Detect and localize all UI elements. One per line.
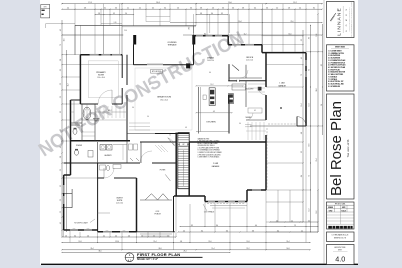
svg-text:8-2: 8-2	[149, 84, 151, 86]
door arc guest suite entry	[104, 168, 114, 178]
svg-text:12-0: 12-0	[316, 33, 318, 36]
svg-text:6.0 BUILDING SECTION: 6.0 BUILDING SECTION	[328, 72, 345, 74]
upper roof dimension row	[170, 22, 322, 24]
svg-text:4-0: 4-0	[115, 235, 117, 237]
hall door swing 1	[168, 138, 175, 146]
rear garage south wall with windows	[205, 201, 247, 203]
svg-text:4-8: 4-8	[185, 127, 187, 129]
svg-text:33-6: 33-6	[98, 251, 101, 253]
svg-text:KITCHEN: KITCHEN	[206, 122, 216, 124]
right col ticks	[302, 34, 305, 37]
1-car garage door dashed	[268, 123, 296, 125]
left wing extra partition lines	[82, 119, 95, 121]
svg-text:5-6: 5-6	[87, 235, 89, 237]
svg-text:4-2: 4-2	[60, 29, 62, 31]
svg-text:4-6: 4-6	[60, 222, 62, 224]
primary suite ceiling tray	[88, 61, 118, 98]
1-car garage south edge line	[250, 125, 297, 127]
svg-text:11-8: 11-8	[79, 241, 82, 243]
corridor north wall left	[71, 140, 131, 142]
2-car garage west wall	[188, 142, 190, 196]
left wing west wall upper	[70, 100, 72, 175]
svg-text:KEY: KEY	[44, 6, 47, 8]
roof extension verticals	[193, 14, 195, 33]
appliance tower island	[209, 88, 215, 106]
primary suite left wall	[79, 55, 81, 104]
2-car garage north wall	[189, 141, 266, 143]
office south wall	[229, 77, 262, 79]
top-left porch edge top	[75, 24, 122, 26]
foyer opening jambs	[236, 80, 238, 82]
svg-text:3-8: 3-8	[200, 8, 202, 10]
top row3 tick marks	[94, 13, 97, 16]
svg-text:3-6: 3-6	[266, 8, 268, 10]
svg-text:5-4: 5-4	[299, 8, 301, 10]
svg-text:4-4: 4-4	[67, 8, 69, 10]
svg-text:6-2: 6-2	[301, 151, 303, 153]
svg-text:SUITE: SUITE	[117, 200, 123, 202]
svg-text:CHKD: CHKD	[329, 210, 333, 212]
svg-text:GREAT ROOM: GREAT ROOM	[157, 96, 171, 99]
porch double door swing triangles	[145, 194, 157, 200]
svg-text:LINNANE: LINNANE	[337, 7, 343, 36]
door arc mud to garage	[258, 87, 266, 95]
mud hall bench rects	[129, 144, 133, 150]
svg-text:6-2: 6-2	[254, 110, 256, 112]
sheet bottom border	[41, 263, 358, 265]
svg-text:12-0 x 11-6: 12-0 x 11-6	[246, 60, 253, 62]
svg-text:12-6 x 13-0: 12-6 x 13-0	[116, 203, 123, 205]
guest suite north wall	[98, 177, 104, 179]
house east long wall	[265, 53, 267, 87]
title block left edge line	[323, 0, 325, 264]
svg-text:3-2: 3-2	[221, 13, 223, 15]
door arc corridor	[140, 151, 152, 163]
svg-text:3-2: 3-2	[301, 39, 303, 41]
garage north wall	[262, 52, 306, 54]
svg-text:13-2: 13-2	[293, 2, 296, 4]
svg-text:16-2: 16-2	[68, 83, 70, 86]
right dimension line col 3	[317, 14, 319, 232]
svg-text:4-0: 4-0	[183, 230, 185, 232]
wall step between dining and office	[227, 36, 229, 45]
top extension lines	[74, 4, 76, 26]
scullery north wall	[228, 80, 237, 82]
svg-text:5-0: 5-0	[147, 116, 149, 118]
svg-text:W.I.C.: W.I.C.	[108, 110, 113, 112]
svg-text:7-2: 7-2	[294, 225, 296, 227]
garage man door swing	[297, 117, 306, 127]
svg-text:7-2: 7-2	[309, 175, 311, 177]
primary suite top wall with windows	[80, 54, 122, 56]
terrace roof overhang outline	[146, 17, 170, 22]
svg-text:3-4: 3-4	[164, 8, 166, 10]
svg-text:1 CAR: 1 CAR	[279, 82, 285, 85]
toilet wc	[73, 129, 77, 135]
svg-text:3-8: 3-8	[242, 8, 244, 10]
svg-text:3-4: 3-4	[74, 235, 76, 237]
svg-text:6-0: 6-0	[308, 220, 310, 222]
scullery sink dark fixture	[258, 87, 262, 91]
svg-text:9-4: 9-4	[209, 72, 211, 74]
svg-text:11-2: 11-2	[244, 33, 247, 35]
top dimension line row 3 partial	[95, 14, 134, 16]
svg-text:12-10: 12-10	[115, 241, 119, 243]
bath east wall	[81, 104, 83, 141]
svg-text:13-6 x 12-0: 13-6 x 12-0	[207, 60, 214, 62]
svg-text:8-2: 8-2	[321, 64, 323, 66]
terrace left edge line	[121, 25, 123, 54]
mud hall step lines	[245, 124, 252, 126]
scullery shelf lines	[248, 83, 265, 85]
svg-text:FIRST FLOOR PLAN: FIRST FLOOR PLAN	[137, 252, 180, 257]
svg-text:5-6: 5-6	[177, 8, 179, 10]
left dimension line col 2	[66, 50, 68, 232]
kitchen south wall	[127, 133, 155, 135]
front porch step lines	[140, 233, 172, 235]
svg-text:12-2: 12-2	[309, 208, 311, 211]
svg-text:3-4: 3-4	[211, 13, 213, 15]
svg-text:4-6: 4-6	[301, 57, 303, 59]
dining west wall / terrace column line	[193, 36, 195, 65]
svg-text:UP: UP	[182, 144, 184, 146]
scullery counter	[232, 84, 246, 90]
rear terrace step lines	[210, 205, 247, 207]
kitchen west partition	[198, 87, 200, 134]
guest bath fixtures	[100, 165, 106, 170]
drawing title underline	[137, 256, 203, 258]
door arc primary suite entry	[98, 90, 112, 104]
bath vanity counter	[73, 101, 75, 123]
svg-text:6-8: 6-8	[84, 8, 86, 10]
svg-text:GARAGE: GARAGE	[212, 165, 220, 168]
svg-text:3-6: 3-6	[132, 107, 134, 109]
wic walls	[94, 104, 96, 141]
svg-text:9.0 SCHEDULES: 9.0 SCHEDULES	[328, 86, 340, 88]
svg-text:19-6 x 20-0: 19-6 x 20-0	[160, 99, 168, 101]
svg-text:8-2: 8-2	[313, 8, 315, 10]
svg-text:PORCH: PORCH	[154, 214, 161, 216]
kitchen dim line	[196, 85, 243, 87]
svg-text:3. VERIFY DOOR SIZES W/ OWNER: 3. VERIFY DOOR SIZES W/ OWNER	[198, 152, 222, 154]
svg-text:12-4: 12-4	[309, 103, 311, 106]
svg-text:4-2: 4-2	[153, 235, 155, 237]
bottom dimension rows	[270, 221, 318, 223]
svg-text:2-10: 2-10	[124, 30, 127, 32]
svg-text:5-2: 5-2	[60, 83, 62, 85]
svg-text:24-8: 24-8	[316, 88, 318, 91]
svg-text:12-6: 12-6	[208, 241, 211, 243]
mudroom lockers	[247, 122, 249, 140]
stair west wall	[175, 133, 177, 196]
svg-text:8-4: 8-4	[301, 175, 303, 177]
terrace column right	[192, 35, 195, 45]
svg-text:12-4: 12-4	[153, 241, 156, 243]
garage east wall with windows	[305, 53, 307, 126]
left dimension line col 1	[61, 20, 63, 237]
powder room walls top right	[245, 65, 247, 78]
title block plan name box	[327, 94, 355, 199]
svg-text:4-2: 4-2	[213, 111, 215, 113]
svg-text:2 CAR: 2 CAR	[213, 162, 219, 165]
svg-text:POWDER: POWDER	[76, 145, 82, 147]
wic hatch closet shelving	[95, 106, 97, 118]
mudroom partition	[246, 119, 266, 121]
drawing title circle	[125, 253, 134, 262]
revision table cells	[327, 208, 355, 210]
svg-text:21-6: 21-6	[290, 21, 293, 23]
terrace column left	[133, 35, 136, 45]
stair label box	[180, 143, 188, 146]
svg-text:13-4: 13-4	[286, 241, 289, 243]
right dimension line col 1	[302, 30, 304, 222]
guest closet wall	[98, 212, 110, 214]
svg-text:2-4: 2-4	[125, 13, 127, 15]
dining north wall with windows	[194, 35, 229, 37]
svg-text:4-2: 4-2	[139, 8, 141, 10]
svg-text:8-6: 8-6	[226, 230, 228, 232]
office closet diagonal wall	[232, 65, 239, 71]
bottom row ticks	[269, 221, 272, 224]
logo divider lines	[342, 6, 344, 33]
svg-text:3-6: 3-6	[222, 8, 224, 10]
hall closet hatch	[155, 145, 162, 152]
svg-text:Two Lane Lot 56: Two Lane Lot 56	[347, 139, 350, 157]
porch inner edge line	[140, 199, 172, 201]
svg-text:17-8: 17-8	[88, 2, 91, 4]
left room inner partition	[71, 189, 73, 208]
svg-text:4-6: 4-6	[212, 8, 214, 10]
svg-text:GUEST: GUEST	[116, 198, 123, 200]
svg-text:8-8: 8-8	[252, 230, 254, 232]
kitchen sink detail	[203, 95, 206, 100]
svg-text:5-8: 5-8	[288, 8, 290, 10]
svg-text:5-2: 5-2	[60, 211, 62, 213]
revision table rule lines	[327, 214, 355, 216]
svg-text:4-6: 4-6	[128, 235, 130, 237]
title block revision table box	[327, 202, 355, 229]
left lower west wall	[63, 175, 65, 230]
covered terrace front edge double line	[122, 24, 196, 26]
svg-text:GARAGE: GARAGE	[278, 84, 286, 87]
primary bath north wall	[71, 99, 81, 101]
rear wall step up	[246, 190, 248, 202]
pantry shelves left of kitchen	[129, 122, 150, 124]
svg-text:BRENTWOOD, TN: BRENTWOOD, TN	[334, 238, 346, 240]
svg-text:9-2: 9-2	[309, 69, 311, 71]
svg-text:4-8: 4-8	[301, 132, 303, 134]
svg-text:3-6: 3-6	[60, 69, 62, 71]
left room closet wall	[64, 207, 72, 209]
kitchen counter line west	[200, 87, 202, 132]
kitchen lower dim line	[196, 112, 232, 114]
laundry counter	[113, 144, 127, 146]
stair treads	[178, 134, 189, 136]
corridor south wall	[64, 162, 140, 164]
top-left porch eave line	[62, 34, 123, 36]
copyright scribble row	[328, 226, 332, 229]
right extension stubs	[262, 35, 303, 37]
left extension stubs	[46, 23, 75, 25]
svg-text:2-10: 2-10	[114, 22, 117, 24]
svg-text:6-2: 6-2	[60, 185, 62, 187]
garage floor drain	[280, 107, 282, 109]
svg-text:8-4: 8-4	[201, 230, 203, 232]
rear garage door dashed	[207, 203, 245, 205]
svg-text:1.0 COVER SHEET: 1.0 COVER SHEET	[328, 51, 341, 53]
svg-text:OFFICE: OFFICE	[246, 57, 254, 59]
powder sink	[88, 151, 93, 158]
svg-text:3-6: 3-6	[115, 8, 117, 10]
svg-text:FOYER: FOYER	[160, 170, 166, 172]
svg-text:1. PROVIDE 5/8 TYPE X GYP BD: 1. PROVIDE 5/8 TYPE X GYP BD	[198, 141, 220, 143]
drawing sheet (white paper)	[40, 0, 358, 265]
svg-text:4.0: 4.0	[335, 254, 345, 263]
svg-text:3-0: 3-0	[239, 123, 241, 125]
svg-text:7-6: 7-6	[60, 44, 62, 46]
water closet walls	[71, 124, 81, 126]
svg-text:4-0: 4-0	[141, 235, 143, 237]
right dimension line col 4 short	[322, 24, 324, 135]
svg-text:8-2: 8-2	[191, 225, 193, 227]
title block sheet number box	[327, 245, 355, 265]
laundry machines	[100, 145, 106, 151]
svg-text:SHEET INDEX: SHEET INDEX	[335, 47, 345, 49]
svg-text:4-6: 4-6	[60, 146, 62, 148]
stair center arrow line	[183, 150, 185, 186]
hall door swing 2	[165, 174, 170, 181]
top row1 tick marks	[61, 3, 62, 4]
svg-text:12-2: 12-2	[246, 248, 249, 250]
svg-text:4.0: 4.0	[128, 259, 132, 262]
svg-text:H O M E S: H O M E S	[346, 8, 348, 32]
left col2 ticks	[65, 53, 68, 56]
laundry walls	[97, 142, 99, 163]
svg-text:SCULLERY: SCULLERY	[246, 89, 254, 91]
svg-text:5-0: 5-0	[276, 8, 278, 10]
terrace right edge line	[193, 26, 195, 36]
bottom wall left room with windows	[64, 229, 98, 231]
svg-text:8-6: 8-6	[309, 37, 311, 39]
hall wall mid	[140, 141, 176, 143]
svg-text:SHEET: SHEET	[338, 249, 343, 251]
svg-text:5-6: 5-6	[60, 169, 62, 171]
svg-text:11-8: 11-8	[247, 241, 250, 243]
top row2 tick marks	[61, 8, 64, 11]
kitchen counter line south	[196, 131, 229, 133]
title block sheet index box	[327, 45, 355, 91]
logo swoosh mark	[330, 13, 336, 21]
svg-text:4-2: 4-2	[103, 235, 105, 237]
mid roof dimension row	[183, 34, 322, 36]
svg-text:6-4: 6-4	[254, 8, 256, 10]
appliance tower east wall	[228, 94, 233, 104]
svg-text:8-6: 8-6	[216, 225, 218, 227]
svg-text:20-4: 20-4	[90, 248, 93, 250]
svg-text:21-4: 21-4	[316, 158, 318, 161]
svg-text:TERRACE: TERRACE	[167, 44, 177, 47]
primary suite bottom wall	[80, 103, 98, 105]
svg-text:3-6: 3-6	[232, 8, 234, 10]
svg-text:24-8: 24-8	[156, 2, 159, 4]
laundry-foyer partition	[140, 142, 142, 163]
svg-text:SCALE: 1/4" = 1'-0": SCALE: 1/4" = 1'-0"	[137, 258, 158, 261]
porch east edge wall	[173, 196, 175, 232]
svg-text:3050: 3050	[123, 229, 126, 231]
title block logo box	[327, 2, 355, 38]
svg-text:6-2: 6-2	[60, 111, 62, 113]
stairs shaft	[178, 133, 189, 189]
garage door header dashed line	[266, 128, 268, 188]
svg-text:3-8: 3-8	[60, 59, 62, 61]
guest suite bottom wall with windows	[98, 231, 137, 233]
mudroom door arc	[246, 113, 253, 120]
svg-text:5-4: 5-4	[167, 235, 169, 237]
door arc office	[240, 70, 248, 78]
terrace east pier	[186, 63, 190, 68]
porch bottom edge	[137, 231, 176, 233]
linen closet lines	[82, 131, 95, 133]
svg-text:5-6: 5-6	[60, 199, 62, 201]
kitchen-dining wall	[228, 64, 230, 66]
door arc primary wc	[75, 123, 80, 128]
svg-text:3050: 3050	[73, 228, 76, 230]
top dimension line row 1	[62, 3, 322, 5]
title block lot release box	[327, 232, 355, 242]
svg-text:7-2: 7-2	[301, 74, 303, 76]
legend box marks	[42, 10, 45, 11]
svg-text:2-8: 2-8	[98, 13, 100, 15]
svg-text:2-6: 2-6	[65, 235, 67, 237]
svg-text:14-8: 14-8	[286, 248, 289, 250]
svg-text:14-6: 14-6	[289, 33, 292, 35]
terrace west wall	[133, 45, 135, 65]
great room ceiling line	[135, 68, 192, 130]
svg-text:CEILING PER IRC R302.6: CEILING PER IRC R302.6	[198, 145, 215, 147]
svg-text:5-8: 5-8	[180, 241, 182, 243]
rear wall step down	[204, 196, 206, 202]
office north wall with windows	[228, 44, 262, 46]
svg-text:20-0: 20-0	[228, 2, 231, 4]
rear wall east segment with window	[247, 189, 266, 191]
svg-text:8-4: 8-4	[204, 33, 206, 35]
svg-text:Bel Rose Plan: Bel Rose Plan	[328, 101, 345, 196]
svg-text:DINING: DINING	[207, 58, 214, 60]
svg-text:3050: 3050	[87, 228, 90, 230]
garage south wall segment	[297, 125, 306, 127]
svg-text:5-6: 5-6	[60, 96, 62, 98]
svg-text:11-4: 11-4	[212, 248, 215, 250]
left corner extension vertical	[45, 24, 47, 28]
svg-text:12-6: 12-6	[63, 38, 65, 41]
left wall windows lower room	[63, 185, 65, 193]
svg-text:6-4: 6-4	[255, 225, 257, 227]
great room - foyer east wall	[228, 65, 230, 81]
svg-text:15-6 x 16-0: 15-6 x 16-0	[97, 77, 105, 79]
guest suite west wall	[97, 163, 99, 232]
primary suite right wall	[121, 55, 123, 78]
svg-text:3050: 3050	[106, 229, 109, 231]
powder toilet	[75, 150, 79, 155]
freestanding tub	[83, 107, 91, 119]
attic access label box	[151, 70, 163, 74]
bottom extension lines	[63, 230, 65, 237]
scullery-mud partition wall	[245, 81, 247, 107]
guest suite east wall	[136, 178, 138, 232]
svg-text:MUDRM: MUDRM	[246, 117, 252, 119]
svg-text:PRIMARY: PRIMARY	[96, 71, 106, 74]
svg-text:3-8: 3-8	[200, 13, 202, 15]
